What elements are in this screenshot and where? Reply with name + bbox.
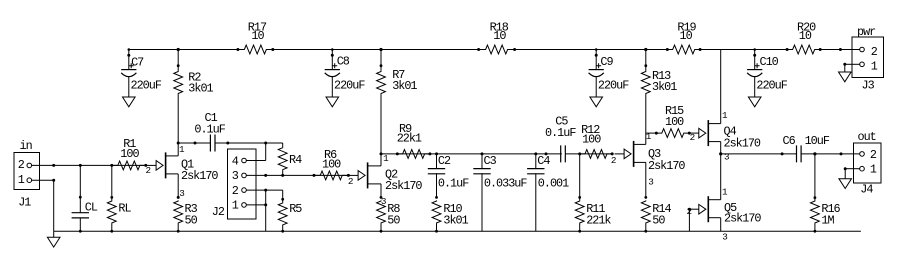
svg-text:3k01: 3k01 [392,79,417,93]
svg-text:RL: RL [118,202,131,216]
svg-text:CL: CL [85,201,98,215]
svg-text:50: 50 [185,213,198,227]
svg-text:C4: C4 [537,154,550,168]
svg-text:10uF: 10uF [805,134,830,148]
svg-text:C3: C3 [484,154,497,168]
svg-text:220uF: 220uF [334,79,365,93]
svg-text:2: 2 [871,45,878,59]
svg-text:3: 3 [648,177,653,188]
svg-text:J2: J2 [212,205,225,219]
svg-text:C8: C8 [337,55,350,69]
svg-text:0.1uF: 0.1uF [194,122,225,136]
svg-text:221k: 221k [586,213,611,227]
svg-text:22k1: 22k1 [397,132,422,146]
svg-text:220uF: 220uF [756,79,787,93]
svg-text:10: 10 [680,29,693,43]
svg-text:100: 100 [665,115,684,129]
svg-text:2: 2 [348,176,353,187]
svg-text:10: 10 [493,29,506,43]
svg-text:100: 100 [322,158,341,172]
svg-text:C6: C6 [783,134,796,148]
svg-text:1: 1 [870,163,877,177]
svg-text:2sk170: 2sk170 [724,136,761,150]
svg-text:C7: C7 [131,55,144,69]
svg-text:1M: 1M [821,213,834,227]
svg-text:J1: J1 [18,195,31,209]
svg-text:2: 2 [146,165,151,176]
svg-text:100: 100 [120,147,139,161]
svg-text:10: 10 [799,29,812,43]
svg-text:3: 3 [381,196,386,207]
svg-text:2: 2 [232,184,239,198]
svg-text:3k01: 3k01 [652,80,677,94]
svg-text:2sk170: 2sk170 [385,179,422,193]
svg-text:1: 1 [871,60,878,74]
svg-text:2sk170: 2sk170 [724,212,761,226]
svg-text:R5: R5 [289,202,302,216]
svg-text:3: 3 [232,169,239,183]
svg-text:2: 2 [18,158,25,172]
svg-text:C9: C9 [600,55,613,69]
svg-text:3: 3 [724,152,729,163]
svg-text:0.033uF: 0.033uF [484,177,527,191]
svg-text:3: 3 [179,188,184,199]
svg-text:2sk170: 2sk170 [648,159,685,173]
svg-text:1: 1 [232,199,239,213]
svg-text:R4: R4 [289,153,302,167]
svg-text:4: 4 [232,154,239,168]
svg-text:3k01: 3k01 [188,82,213,96]
svg-text:50: 50 [387,213,400,227]
svg-text:2: 2 [611,155,616,166]
svg-text:220uF: 220uF [131,79,162,93]
svg-text:220uF: 220uF [598,79,629,93]
svg-text:C10: C10 [760,55,779,69]
svg-text:1: 1 [18,173,25,187]
svg-text:2: 2 [687,206,692,217]
svg-text:2: 2 [690,132,695,143]
svg-text:2: 2 [870,148,877,162]
svg-text:in: in [20,139,33,153]
svg-text:J3: J3 [862,79,875,93]
svg-text:C2: C2 [438,154,451,168]
svg-text:100: 100 [582,133,601,147]
svg-text:0.1uF: 0.1uF [438,177,469,191]
svg-text:pwr: pwr [857,25,876,39]
svg-text:3k01: 3k01 [443,213,468,227]
svg-text:0.001: 0.001 [538,177,569,191]
svg-text:out: out [858,130,876,144]
svg-text:2sk170: 2sk170 [181,169,218,183]
svg-text:3: 3 [722,232,727,243]
svg-text:J4: J4 [860,183,873,197]
svg-text:50: 50 [652,213,665,227]
svg-text:10: 10 [251,29,264,43]
svg-text:0.1uF: 0.1uF [545,126,576,140]
